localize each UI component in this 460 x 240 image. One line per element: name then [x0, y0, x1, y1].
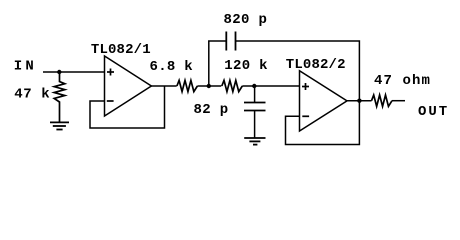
wire node B to U2 + input — [254, 85, 299, 87]
wire node A to R3 — [209, 85, 222, 87]
wire IN to op-amp U1 + input — [43, 71, 105, 73]
svg-text:6.8 k: 6.8 k — [150, 59, 194, 75]
capacitor C2 82p plates — [244, 103, 266, 111]
wire U1 feedback loop output to inverting input — [90, 86, 165, 128]
node A junction dot — [207, 84, 211, 88]
op-amp U1 minus sign — [107, 100, 114, 102]
capacitor C1 820p plates — [226, 32, 235, 51]
node B junction dot — [252, 84, 256, 88]
wire C2 bottom plate to ground — [254, 111, 256, 138]
resistor R2 6.8k — [177, 80, 198, 91]
wire U1 output — [151, 85, 176, 87]
op-amp U2 plus sign — [302, 83, 309, 90]
resistor R1 47k vertical — [54, 72, 65, 122]
resistor R4 47 ohm — [372, 95, 393, 106]
wire U2 output — [347, 100, 372, 102]
svg-text:TL082/1: TL082/1 — [91, 42, 151, 58]
svg-text:82 p: 82 p — [194, 102, 229, 118]
node U2 output junction dot — [357, 99, 361, 103]
op-amp U1 triangle — [105, 56, 152, 116]
svg-text:OUT: OUT — [418, 104, 449, 120]
svg-text:47 ohm: 47 ohm — [374, 73, 431, 89]
svg-text:120 k: 120 k — [224, 58, 268, 74]
wire R3 to node B — [242, 85, 254, 87]
svg-text:TL082/2: TL082/2 — [286, 57, 346, 73]
wire C1 right plate across top to U2 output — [236, 41, 360, 101]
svg-text:820 p: 820 p — [224, 12, 268, 28]
op-amp U2 triangle — [300, 71, 348, 131]
wire U2 feedback loop output to inverting input — [286, 101, 360, 145]
svg-text:47 k: 47 k — [14, 87, 50, 103]
wire R4 to OUT — [392, 100, 405, 102]
wire riser node A up to feedback cap — [209, 41, 227, 86]
resistor R3 120k — [222, 80, 243, 91]
svg-text:IN: IN — [14, 59, 37, 75]
wire node B down to C2 — [254, 86, 256, 103]
op-amp U2 minus sign — [302, 115, 309, 117]
wire R2 to node A — [197, 85, 208, 87]
op-amp U1 plus sign — [107, 69, 114, 76]
ground below R1 — [50, 122, 69, 129]
node junction dot at IN/R1 — [57, 70, 61, 74]
ground below C2 — [244, 138, 265, 145]
